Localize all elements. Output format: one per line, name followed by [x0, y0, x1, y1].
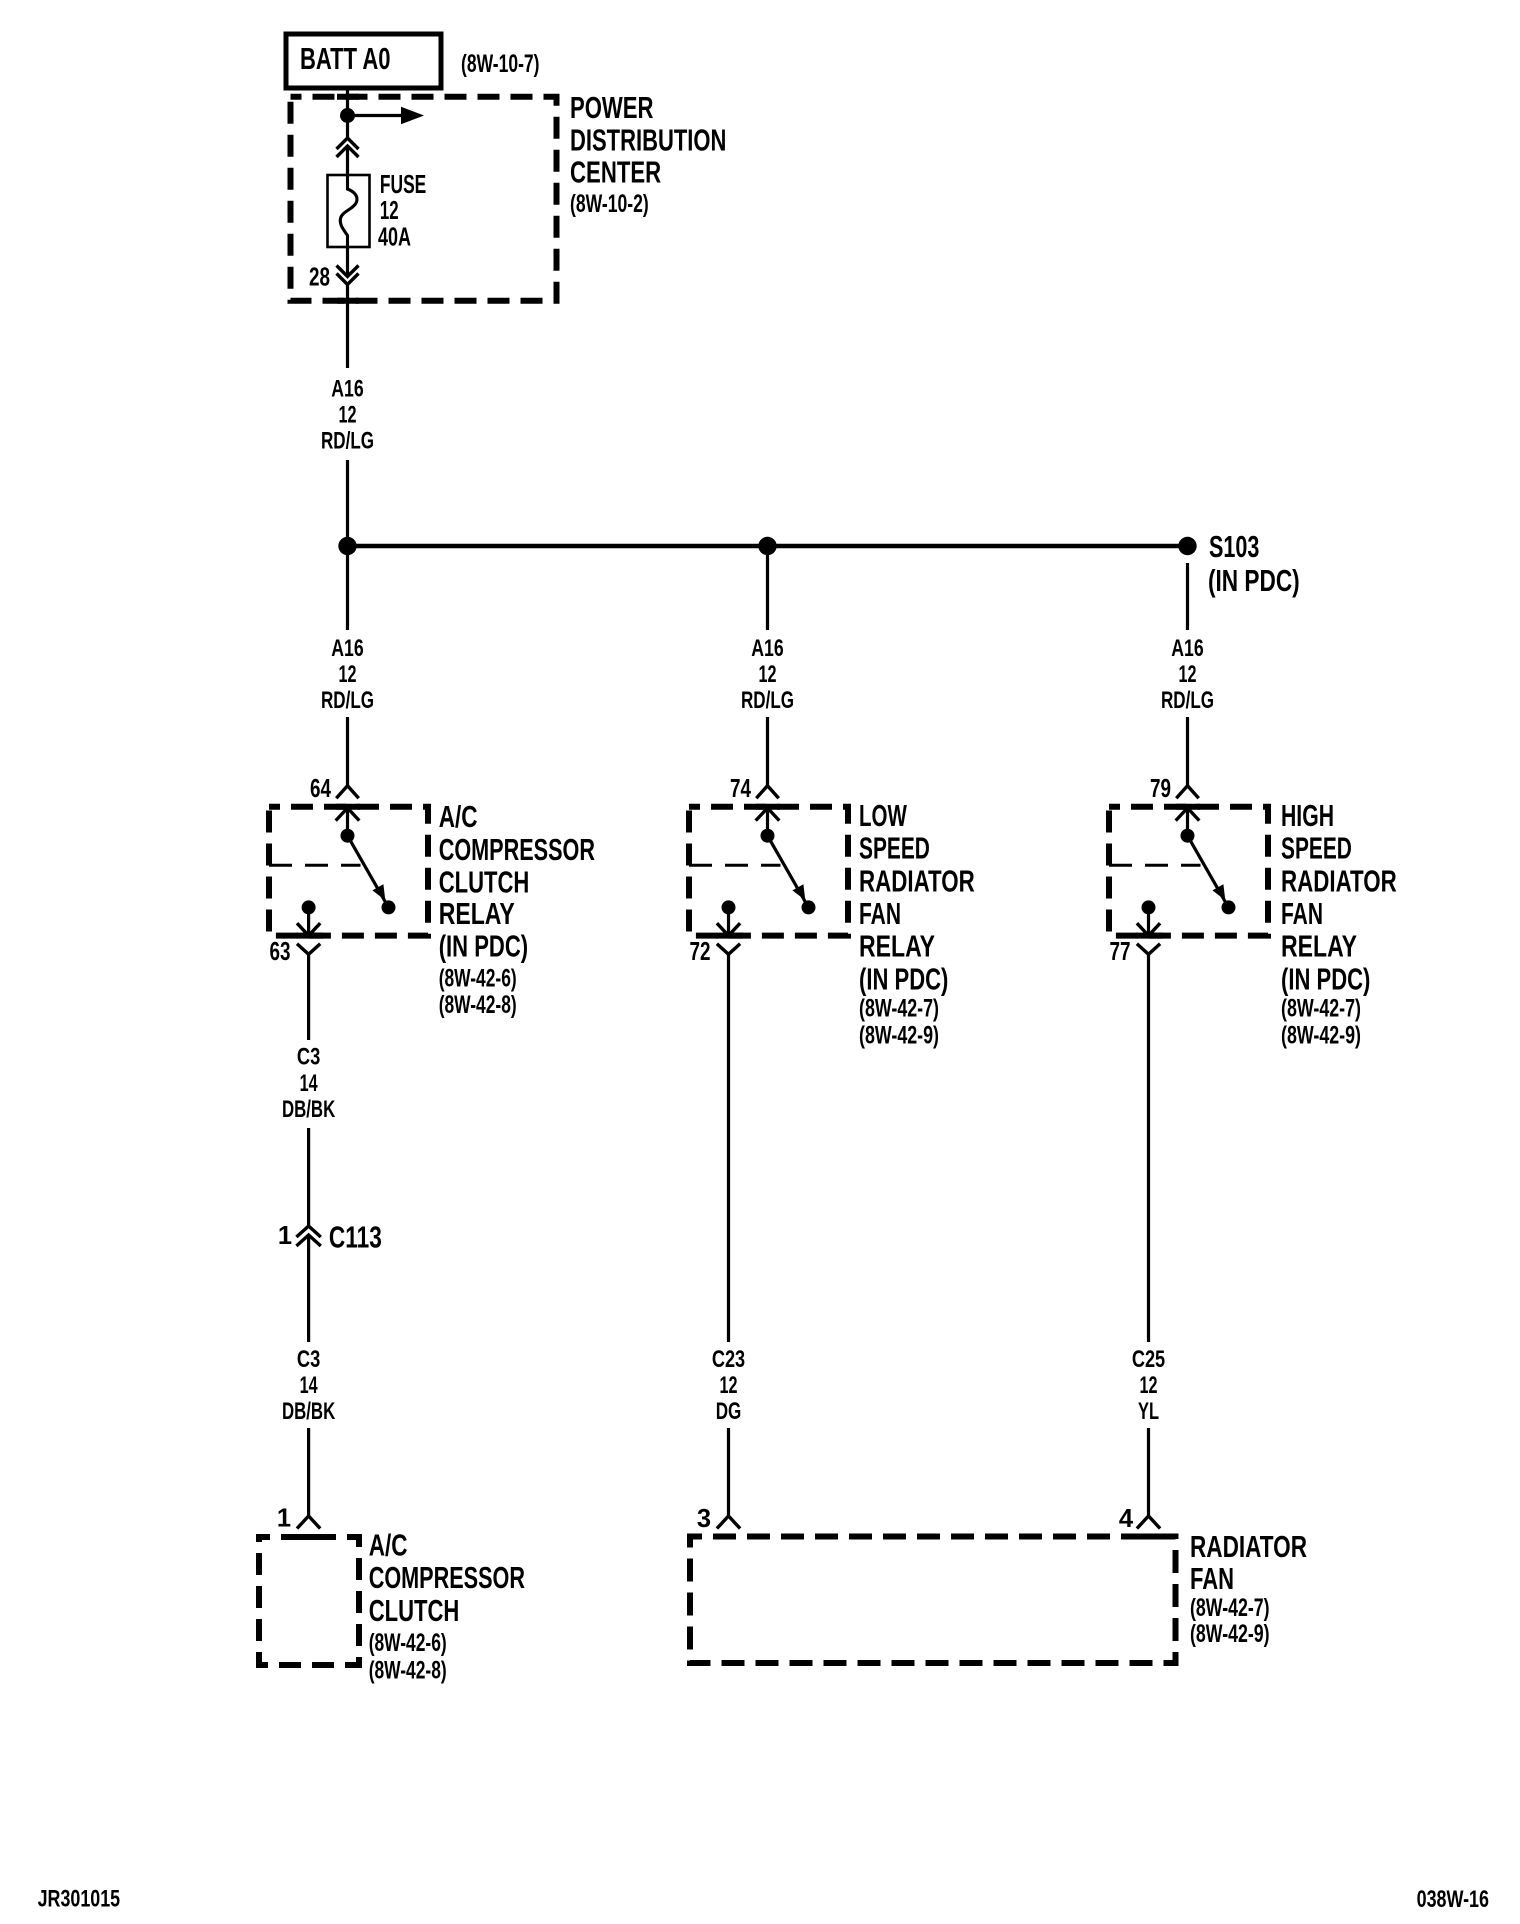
- wire crossing dash patch (relay3 top): [1176, 804, 1200, 810]
- svg-text:DB/BK: DB/BK: [282, 1096, 336, 1123]
- junction dot left: [338, 537, 356, 555]
- svg-text:JR301015: JR301015: [38, 1886, 121, 1913]
- svg-text:RADIATOR: RADIATOR: [859, 863, 975, 898]
- svg-text:COMPRESSOR: COMPRESSOR: [369, 1560, 525, 1595]
- svg-text:C113: C113: [329, 1219, 382, 1254]
- svg-text:CLUTCH: CLUTCH: [439, 864, 530, 899]
- wire to A/C compressor clutch: [307, 1428, 310, 1516]
- wire crossing dash patch (PDC top): [337, 94, 359, 100]
- radiator fan label: [1190, 1529, 1307, 1648]
- wire crossing dash patch (relay1 top): [336, 804, 360, 810]
- svg-text:64: 64: [310, 775, 332, 803]
- svg-text:C3: C3: [297, 1346, 320, 1373]
- fuse 12 40A: [328, 175, 370, 247]
- svg-text:1: 1: [278, 1222, 292, 1250]
- wire to relay pin 79: [1186, 717, 1189, 786]
- svg-text:FAN: FAN: [1281, 896, 1323, 931]
- S103 label: [1208, 529, 1300, 598]
- svg-text:COMPRESSOR: COMPRESSOR: [439, 832, 595, 867]
- splice bus S103: [348, 544, 1188, 549]
- pin 72 fork below: [717, 944, 740, 955]
- wire label C23 12 DG: [712, 1346, 745, 1425]
- wire from pin 63: [307, 954, 310, 1040]
- wire from pin 72: [727, 954, 730, 1342]
- pin 74 connector fork: [756, 786, 778, 799]
- A/C compressor clutch relay (left): [269, 775, 595, 1019]
- relay common contact dot: [341, 829, 355, 843]
- pin 77 male chevron (down): [1137, 923, 1160, 935]
- wire to relay pin 74: [766, 717, 769, 786]
- svg-text:72: 72: [690, 938, 711, 966]
- relay internal dashed line: [689, 864, 781, 867]
- junction dot S103: [1178, 537, 1196, 555]
- wire to radiator fan pin 4: [1147, 1428, 1150, 1516]
- wire label C25 12 YL: [1132, 1346, 1165, 1425]
- pin 72 stem wire: [727, 907, 730, 935]
- svg-text:DG: DG: [716, 1398, 742, 1425]
- svg-text:(8W-42-9): (8W-42-9): [1281, 1021, 1361, 1049]
- pin 77 fork below: [1137, 944, 1160, 955]
- pin 64 stem wire: [346, 808, 349, 836]
- svg-text:RD/LG: RD/LG: [1161, 687, 1214, 714]
- wire label C3 14 DB/BK (lower): [282, 1346, 336, 1425]
- low speed radiator fan relay (middle): [689, 775, 975, 1050]
- wire crossing dash patch (relay2 bottom): [716, 933, 743, 939]
- power distribution center dashed box: [291, 97, 557, 301]
- svg-text:FAN: FAN: [1190, 1561, 1234, 1596]
- wire A16 out of PDC: [346, 285, 349, 369]
- svg-text:RADIATOR: RADIATOR: [1281, 863, 1397, 898]
- feed arrow to right: [348, 107, 425, 124]
- wire crossing dash patch (relay2 top): [756, 804, 780, 810]
- svg-text:4: 4: [1119, 1505, 1134, 1533]
- wire to fuse: [346, 146, 349, 176]
- relay switch blade: [348, 836, 389, 908]
- relay switch blade: [768, 836, 809, 908]
- pin 63 contact dot: [302, 900, 316, 914]
- svg-text:FUSE: FUSE: [380, 171, 426, 199]
- svg-text:(8W-42-8): (8W-42-8): [369, 1657, 447, 1685]
- svg-text:C23: C23: [712, 1346, 745, 1373]
- relay switch blade: [1188, 836, 1229, 908]
- wire from BATT A0 into PDC: [346, 88, 349, 138]
- svg-text:C3: C3: [297, 1044, 320, 1071]
- svg-text:A/C: A/C: [439, 799, 478, 834]
- svg-text:(8W-10-7): (8W-10-7): [461, 50, 540, 78]
- pin 64 connector fork: [336, 786, 358, 799]
- svg-text:12: 12: [339, 661, 357, 688]
- wire below splice (left): [346, 546, 349, 630]
- svg-text:(IN PDC): (IN PDC): [1281, 961, 1370, 996]
- svg-text:RD/LG: RD/LG: [321, 687, 374, 714]
- svg-text:RELAY: RELAY: [1281, 929, 1357, 964]
- relay dashed box: [689, 807, 848, 936]
- svg-text:(IN PDC): (IN PDC): [859, 961, 948, 996]
- pin 63 fork below: [297, 944, 320, 955]
- svg-text:S103: S103: [1209, 529, 1259, 564]
- connector chevrons at PDC top: [337, 138, 359, 157]
- svg-text:YL: YL: [1138, 1398, 1159, 1425]
- pin 4 fork at radiator fan: [1137, 1516, 1160, 1529]
- svg-text:A16: A16: [331, 635, 363, 662]
- PDC label text: [570, 90, 726, 218]
- svg-text:DISTRIBUTION: DISTRIBUTION: [570, 123, 726, 158]
- svg-text:(8W-42-7): (8W-42-7): [1190, 1594, 1270, 1622]
- relay dashed box: [269, 807, 428, 936]
- relay common contact dot: [1181, 829, 1195, 843]
- svg-text:SPEED: SPEED: [1281, 831, 1352, 866]
- svg-text:3: 3: [697, 1505, 711, 1533]
- svg-text:HIGH: HIGH: [1281, 798, 1334, 833]
- svg-text:A16: A16: [331, 375, 363, 402]
- svg-text:14: 14: [300, 1070, 318, 1097]
- svg-text:40A: 40A: [378, 223, 411, 251]
- relay common contact dot: [761, 829, 775, 843]
- svg-text:CLUTCH: CLUTCH: [369, 1593, 460, 1628]
- svg-text:POWER: POWER: [570, 90, 654, 125]
- relay NO contact dot: [382, 900, 396, 914]
- svg-text:RELAY: RELAY: [859, 929, 935, 964]
- junction dot middle: [758, 537, 776, 555]
- svg-text:FAN: FAN: [859, 896, 901, 931]
- pin 64 male chevron: [336, 808, 360, 821]
- pin 74 stem wire: [766, 808, 769, 836]
- relay dashed box: [1109, 807, 1268, 936]
- connector C113 chevrons: [296, 1226, 320, 1246]
- relay NO contact dot: [802, 900, 816, 914]
- svg-text:14: 14: [300, 1372, 318, 1399]
- wire crossing dash patch (relay3 bottom): [1136, 933, 1163, 939]
- relay internal dashed line: [269, 864, 361, 867]
- svg-text:12: 12: [759, 661, 777, 688]
- A/C compressor clutch label: [369, 1528, 525, 1685]
- pin 72 contact dot: [722, 900, 736, 914]
- svg-text:C25: C25: [1132, 1346, 1165, 1373]
- svg-text:(8W-42-6): (8W-42-6): [369, 1629, 447, 1657]
- svg-text:(8W-42-7): (8W-42-7): [1281, 995, 1361, 1023]
- pin 3 fork at radiator fan: [717, 1516, 740, 1529]
- pin 77 stem wire: [1147, 907, 1150, 935]
- svg-text:(8W-42-9): (8W-42-9): [859, 1021, 939, 1049]
- junction dot in PDC: [340, 108, 355, 123]
- svg-text:1: 1: [277, 1505, 291, 1533]
- svg-text:12: 12: [1140, 1372, 1158, 1399]
- svg-text:LOW: LOW: [859, 798, 907, 833]
- pin 79 male chevron: [1176, 808, 1200, 821]
- A/C compressor clutch dashed box: [259, 1537, 359, 1665]
- svg-text:RELAY: RELAY: [439, 896, 515, 931]
- svg-text:A16: A16: [751, 635, 783, 662]
- svg-text:63: 63: [270, 938, 291, 966]
- svg-text:RD/LG: RD/LG: [741, 687, 794, 714]
- svg-text:28: 28: [309, 263, 330, 291]
- pin 74 male chevron: [756, 808, 780, 821]
- wire crossing dash patch (A/C clutch box top): [296, 1534, 322, 1540]
- svg-text:(8W-10-2): (8W-10-2): [570, 190, 649, 218]
- svg-text:12: 12: [720, 1372, 738, 1399]
- pin 79 connector fork: [1176, 786, 1198, 799]
- fuse value label: [378, 171, 426, 251]
- svg-text:BATT A0: BATT A0: [300, 41, 391, 76]
- pin 77 contact dot: [1142, 900, 1156, 914]
- svg-text:(IN PDC): (IN PDC): [439, 928, 528, 963]
- wire to radiator fan pin 3: [727, 1428, 730, 1516]
- svg-text:(8W-42-7): (8W-42-7): [859, 995, 939, 1023]
- svg-text:12: 12: [1179, 661, 1197, 688]
- pin 28 connector chevrons: [337, 266, 359, 285]
- svg-text:CENTER: CENTER: [570, 155, 661, 190]
- svg-text:A16: A16: [1171, 635, 1203, 662]
- wire label C3 14 DB/BK (upper): [282, 1044, 336, 1123]
- wire crossing dash patch (PDC bottom): [337, 298, 359, 304]
- svg-text:038W-16: 038W-16: [1417, 1886, 1489, 1913]
- battery feed box BATT A0: [286, 34, 441, 88]
- wire label A16 12 RD/LG (upper): [321, 375, 374, 454]
- pin 1 fork at A/C compressor clutch: [297, 1516, 320, 1529]
- svg-text:(8W-42-8): (8W-42-8): [439, 991, 517, 1019]
- high speed radiator fan relay (right): [1109, 775, 1397, 1050]
- wire below splice (middle): [766, 546, 769, 630]
- svg-text:(8W-42-9): (8W-42-9): [1190, 1620, 1270, 1648]
- svg-text:DB/BK: DB/BK: [282, 1398, 336, 1425]
- svg-text:SPEED: SPEED: [859, 831, 930, 866]
- wire to relay pin 64: [346, 717, 349, 786]
- svg-text:79: 79: [1150, 775, 1171, 803]
- svg-text:77: 77: [1110, 938, 1131, 966]
- svg-text:RD/LG: RD/LG: [321, 428, 374, 455]
- wire below fuse: [346, 247, 349, 276]
- svg-text:12: 12: [339, 401, 357, 428]
- wire crossing dash patch (relay1 bottom): [296, 933, 323, 939]
- wire down to C113: [307, 1128, 310, 1226]
- wire down to splice: [346, 460, 349, 546]
- svg-text:A/C: A/C: [369, 1528, 408, 1563]
- svg-text:RADIATOR: RADIATOR: [1190, 1529, 1307, 1564]
- pin 79 stem wire: [1186, 808, 1189, 836]
- wire below splice (right): [1186, 563, 1189, 630]
- pin 72 male chevron (down): [717, 923, 740, 935]
- wire from pin 77: [1147, 954, 1150, 1342]
- relay internal dashed line: [1109, 864, 1201, 867]
- svg-text:(8W-42-6): (8W-42-6): [439, 964, 517, 992]
- svg-text:12: 12: [380, 197, 399, 225]
- wire below C113: [307, 1235, 310, 1342]
- pin 63 male chevron (down): [297, 923, 320, 935]
- svg-text:74: 74: [730, 775, 752, 803]
- radiator fan dashed box: [690, 1537, 1176, 1664]
- svg-text:(IN PDC): (IN PDC): [1208, 563, 1300, 598]
- relay NO contact dot: [1222, 900, 1236, 914]
- pin 63 stem wire: [307, 907, 310, 935]
- wire crossing dash patch (radiator fan box top, pin 4): [1136, 1534, 1162, 1540]
